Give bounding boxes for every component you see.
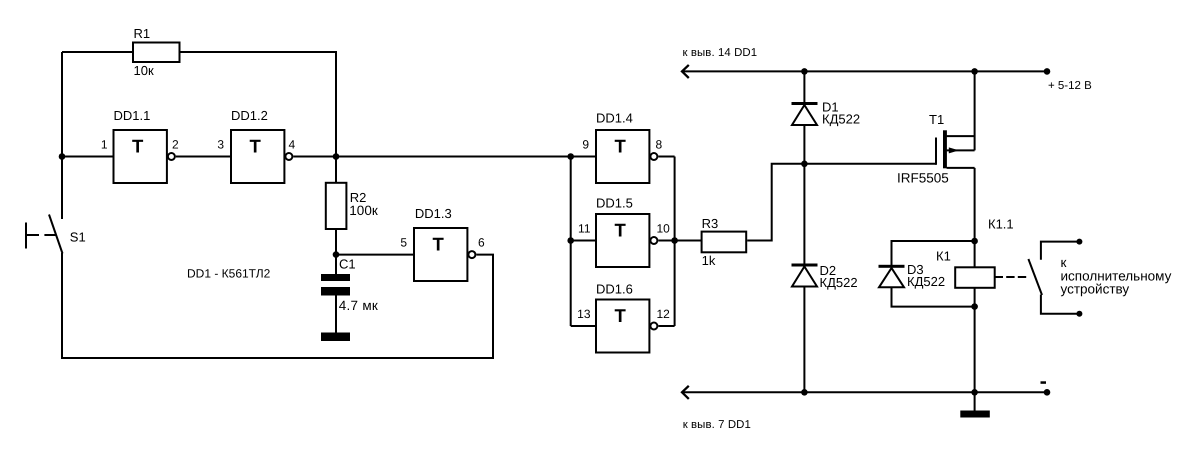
svg-text:КД522: КД522 bbox=[820, 275, 858, 290]
svg-text:4: 4 bbox=[289, 138, 296, 152]
svg-text:5: 5 bbox=[400, 236, 407, 250]
svg-text:S1: S1 bbox=[70, 230, 86, 245]
svg-text:DD1 - К561ТЛ2: DD1 - К561ТЛ2 bbox=[187, 267, 271, 281]
svg-text:IRF5505: IRF5505 bbox=[897, 171, 949, 186]
svg-text:T: T bbox=[433, 234, 445, 255]
svg-text:1k: 1k bbox=[702, 253, 716, 268]
svg-text:6: 6 bbox=[478, 236, 485, 250]
svg-text:R1: R1 bbox=[134, 26, 151, 41]
svg-text:T: T bbox=[615, 305, 627, 326]
svg-text:10: 10 bbox=[657, 222, 671, 236]
svg-text:T: T bbox=[250, 136, 262, 157]
svg-text:DD1.4: DD1.4 bbox=[596, 111, 633, 126]
svg-text:DD1.3: DD1.3 bbox=[415, 206, 452, 221]
svg-text:DD1.1: DD1.1 bbox=[114, 108, 151, 123]
svg-text:+ 5-12 В: + 5-12 В bbox=[1048, 80, 1092, 92]
svg-text:К1.1: К1.1 bbox=[988, 217, 1014, 232]
svg-text:13: 13 bbox=[577, 307, 591, 321]
svg-text:12: 12 bbox=[657, 307, 671, 321]
svg-text:к выв. 7 DD1: к выв. 7 DD1 bbox=[683, 419, 751, 431]
svg-text:100к: 100к bbox=[349, 203, 378, 218]
svg-text:T: T bbox=[615, 136, 627, 157]
svg-text:DD1.2: DD1.2 bbox=[231, 108, 268, 123]
svg-text:1: 1 bbox=[101, 138, 108, 152]
svg-text:T: T bbox=[615, 220, 627, 241]
svg-text:T: T bbox=[132, 136, 144, 157]
svg-text:8: 8 bbox=[656, 138, 663, 152]
svg-text:10к: 10к bbox=[134, 63, 154, 78]
svg-text:4.7 мк: 4.7 мк bbox=[339, 298, 378, 313]
svg-text:КД522: КД522 bbox=[907, 274, 945, 289]
svg-text:к выв. 14 DD1: к выв. 14 DD1 bbox=[683, 47, 758, 59]
svg-text:T1: T1 bbox=[929, 112, 944, 127]
svg-text:К1: К1 bbox=[936, 249, 951, 264]
svg-text:КД522: КД522 bbox=[822, 112, 860, 127]
svg-text:R3: R3 bbox=[702, 216, 719, 231]
svg-text:C1: C1 bbox=[339, 257, 356, 272]
svg-text:DD1.5: DD1.5 bbox=[596, 196, 633, 211]
svg-text:3: 3 bbox=[217, 138, 224, 152]
svg-text:DD1.6: DD1.6 bbox=[596, 282, 633, 297]
svg-text:устройству: устройству bbox=[1061, 282, 1130, 297]
svg-text:2: 2 bbox=[172, 138, 179, 152]
svg-text:9: 9 bbox=[582, 138, 589, 152]
svg-text:11: 11 bbox=[578, 222, 591, 236]
